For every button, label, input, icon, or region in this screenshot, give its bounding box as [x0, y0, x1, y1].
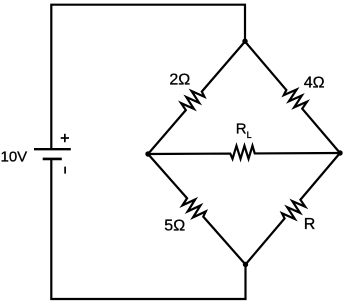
resistor R on wire from right node to bottom node — [246, 153, 341, 265]
node right junction dot — [337, 150, 342, 155]
resistor 2 ohm on wire from top node to left node — [148, 42, 245, 155]
svg-text:L: L — [247, 130, 252, 140]
resistor 5 ohm on wire from left node to bottom node — [148, 154, 246, 265]
svg-text:4Ω: 4Ω — [304, 74, 325, 91]
wire: battery positive terminal up left side, across top to top node — [51, 5, 245, 150]
resistor 4 ohm on wire from top node to right node — [245, 42, 340, 154]
svg-text:10V: 10V — [1, 148, 28, 165]
node left junction dot — [145, 151, 150, 156]
resistor RL on wire from left node to right node — [148, 146, 340, 159]
svg-text:R: R — [304, 216, 316, 233]
battery minus-side tick I — [64, 167, 66, 174]
svg-text:2Ω: 2Ω — [169, 71, 190, 88]
node top junction dot — [242, 39, 247, 44]
node bottom junction dot — [243, 262, 248, 267]
battery V1 negative plate (short) — [43, 158, 62, 161]
svg-text:R: R — [236, 120, 247, 137]
battery plus sign — [61, 134, 69, 142]
wire: battery negative terminal down left side, across bottom to bottom node — [51, 159, 245, 299]
svg-text:5Ω: 5Ω — [164, 218, 185, 235]
battery V1 positive plate (long) — [34, 148, 71, 150]
